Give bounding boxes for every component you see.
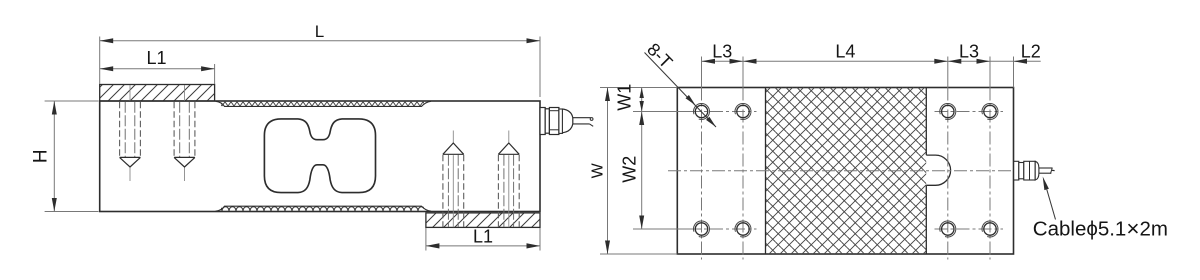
dimension W2 [620,112,645,230]
svg-text:L: L [315,22,324,41]
tapped hole (top face) #1 [120,85,141,181]
tapped hole (top face) #2 [174,85,195,181]
svg-text:L2: L2 [1021,41,1041,61]
top view: load cell body [677,88,1013,255]
svg-text:W1: W1 [615,84,635,111]
dimension L4 (center span) [743,41,948,64]
svg-text:W: W [590,162,607,178]
dimension L1 (bottom block length) [426,227,540,251]
cable gland (top view) [1014,161,1055,180]
horizontal body midline [668,170,1014,172]
dimension L2 (edge offset, arrows outside) [990,41,1041,64]
8-T thread callout [643,39,716,127]
svg-text:L1: L1 [146,48,166,68]
tapped hole (bottom face) #1 [443,131,464,228]
serrated bottom band [221,206,424,211]
dimension L (overall length) [100,22,540,97]
dimension L3 (right hole spacing) [948,41,990,64]
svg-text:Cableϕ5.1×2m: Cableϕ5.1×2m [1033,216,1168,241]
top-left mounting spacer block (hatched) [100,85,215,102]
serrated top band [221,102,424,107]
dimension L3 (left hole spacing) [702,41,744,64]
vertical hole centerlines + dimension extension lines [702,57,1014,260]
dimension W1 [615,84,690,229]
side view: load cell body [100,101,540,212]
svg-text:L3: L3 [712,41,732,61]
binocular flexure cutout [264,119,375,193]
svg-text:H: H [31,149,52,163]
cable leader + label [1033,177,1168,242]
semicircular load-button notch [926,155,950,185]
8 threaded holes (top view) [693,104,997,238]
crosshatched pocket area [766,88,927,255]
svg-text:L4: L4 [835,41,855,61]
horizontal hole centerlines [688,112,1003,230]
dimension W (overall width) [590,88,678,255]
svg-text:W2: W2 [620,156,640,183]
svg-text:L3: L3 [959,41,979,61]
cable gland (side view) [540,108,593,135]
bottom-right mounting spacer block (hatched) [426,213,540,228]
dimension H (height) [31,101,99,212]
tapped hole (bottom face) #2 [498,131,519,228]
dimension L1 (top block length) [100,48,215,84]
svg-text:L1: L1 [473,227,493,247]
